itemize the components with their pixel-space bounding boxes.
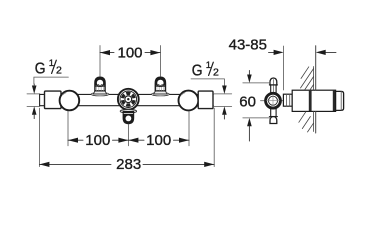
dimension: 283 extension lines — [38, 108, 40, 166]
label: G 1/2 (left) — [35, 58, 62, 78]
svg-text:60: 60 — [239, 93, 256, 110]
right union nut — [198, 91, 213, 109]
wall hatching bottom — [299, 112, 314, 132]
dimension: 283 line + arrows — [39, 163, 214, 165]
svg-text:43-85: 43-85 — [229, 37, 267, 54]
side bottom wing (down port side view) — [269, 109, 277, 124]
side neck — [283, 94, 292, 106]
svg-text:2: 2 — [56, 65, 62, 77]
left union nut — [45, 91, 62, 109]
svg-text:100: 100 — [146, 132, 171, 149]
dimension: 43-85 right arrow — [324, 51, 336, 53]
dimension: bottom 100s extension lines — [67, 111, 69, 146]
dimension: G1/2 right arrows — [222, 86, 227, 94]
dimension: G1/2 right leader — [191, 79, 224, 86]
svg-text:G: G — [35, 61, 46, 78]
up port right (x=160.4) — [152, 77, 170, 96]
dimension: bottom 100 left line + arrows — [68, 139, 189, 141]
right union circle — [179, 91, 199, 111]
wire: pipe body outline top edge — [40, 93, 214, 95]
dimension: top 100 extension line right — [159, 46, 161, 77]
side valve body ring — [266, 93, 281, 108]
svg-text:283: 283 — [116, 156, 141, 173]
side cylinder — [292, 90, 335, 111]
dimension: 60 arrows — [248, 71, 250, 75]
dimension: G1/2 right extension lines — [213, 93, 231, 95]
dimension: top 100 extension line left — [99, 46, 101, 77]
svg-text:2: 2 — [213, 67, 219, 79]
dimension: top 100 line + arrows — [100, 52, 160, 54]
side top wing (up port side view) — [269, 78, 277, 93]
dimension: G1/2 left extension lines — [27, 93, 39, 95]
side cylinder end cap — [336, 91, 344, 110]
svg-text:G: G — [192, 63, 203, 80]
center wheel (valve front) — [118, 89, 139, 110]
side valve crosshair — [261, 100, 288, 102]
label: G 1/2 (right) — [192, 60, 219, 80]
left union circle — [60, 91, 80, 111]
dimension: G1/2 left leader — [34, 77, 69, 84]
wire: pipe body outline bottom edge — [40, 105, 214, 107]
svg-text:100: 100 — [117, 45, 142, 62]
wire: pipe left end face — [39, 94, 41, 106]
svg-text:100: 100 — [85, 132, 110, 149]
wall face line — [315, 46, 317, 90]
wall hatching top — [301, 67, 314, 90]
dimension: G1/2 left arrows — [32, 86, 37, 94]
dimension: 43-85 left extension line — [283, 46, 285, 90]
wall hatch boundary — [313, 67, 315, 91]
dimension: 43-85 left arrow — [269, 51, 277, 53]
dimension: 60 extension lines — [243, 82, 270, 84]
up port left (x=100) — [91, 77, 109, 96]
down port (below wheel) — [120, 110, 136, 124]
